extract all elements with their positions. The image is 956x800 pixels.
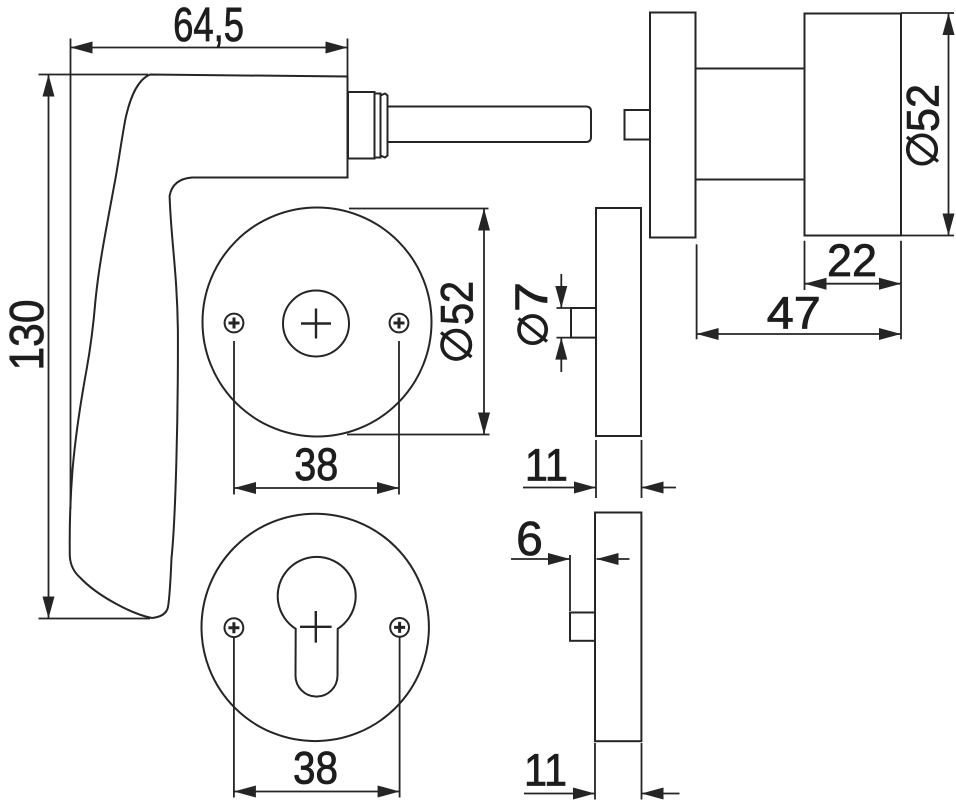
upper rosette center cross: [301, 309, 331, 339]
dim lower 11 extension lines: [595, 743, 642, 800]
dim lower 11 lines: [524, 793, 680, 795]
dim upper 38 extension lines: [234, 341, 399, 495]
spindle end square: [625, 110, 651, 140]
knob head: [805, 14, 902, 236]
svg-text:22: 22: [827, 235, 877, 286]
knob Ø52 O: [908, 135, 936, 163]
dim 130 line: [48, 75, 50, 619]
dim lower 38 line: [234, 791, 400, 793]
lower profile screw boss: [570, 613, 595, 641]
dim 130 extension lines: [39, 75, 151, 619]
svg-text:52: 52: [432, 281, 483, 325]
svg-text:11: 11: [525, 440, 568, 491]
dim knob Ø52 line: [948, 13, 950, 236]
spindle: [388, 107, 592, 143]
dim knob Ø52 extension lines: [901, 13, 954, 236]
dim 22 line: [805, 283, 902, 285]
svg-text:64,5: 64,5: [173, 0, 244, 52]
upper rosette right screw: [390, 314, 409, 333]
dim 22 extension lines: [805, 241, 902, 339]
knob rosette (side view): [650, 13, 696, 238]
svg-text:7: 7: [506, 282, 557, 312]
dim lower 38 extension lines: [234, 638, 400, 798]
upper profile screw boss: [571, 308, 596, 338]
dim upper 11 extension lines: [596, 440, 642, 498]
upper rosette profile (side view): [596, 208, 641, 436]
handle collar ring 1: [375, 94, 381, 158]
dim upper Ø52 line: [483, 209, 485, 435]
diameter symbols drawn manually: [441, 135, 938, 359]
knob neck: [696, 69, 805, 180]
svg-text:38: 38: [294, 439, 338, 490]
lower rosette right screw: [390, 618, 409, 637]
upper rosette hub circle: [283, 291, 349, 357]
dim upper 11 lines: [523, 487, 676, 489]
dim 64,5 extension lines: [71, 39, 348, 510]
dim 6 lines: [511, 558, 630, 560]
dim 64,5 line: [71, 47, 348, 49]
handle collar ring 2: [381, 94, 388, 158]
svg-text:6: 6: [516, 513, 543, 566]
Ø7 O: [519, 316, 546, 343]
upper rosette left screw: [225, 314, 244, 333]
dim 47 line: [697, 333, 901, 335]
lower rosette center cross: [300, 611, 332, 643]
lever handle outline: [70, 75, 348, 619]
svg-text:130: 130: [1, 300, 54, 371]
svg-text:52: 52: [898, 84, 949, 132]
handle collar block: [348, 92, 375, 159]
euro cylinder cutout: [278, 557, 356, 697]
dim 47 extension line: [696, 244, 698, 339]
dim upper 38 line: [234, 487, 399, 489]
svg-text:11: 11: [524, 745, 567, 796]
lower rosette profile (side view): [595, 513, 641, 742]
upper Ø52 O: [442, 331, 470, 359]
svg-text:47: 47: [767, 288, 821, 339]
dim Ø7 ticks and lines: [557, 274, 572, 372]
svg-text:38: 38: [293, 743, 338, 794]
lower rosette circle: [202, 514, 429, 741]
dim upper Ø52 extension lines: [347, 209, 490, 435]
lower rosette left screw: [225, 618, 244, 637]
upper rosette circle: [203, 208, 432, 437]
dim 6 extension line: [569, 555, 571, 611]
